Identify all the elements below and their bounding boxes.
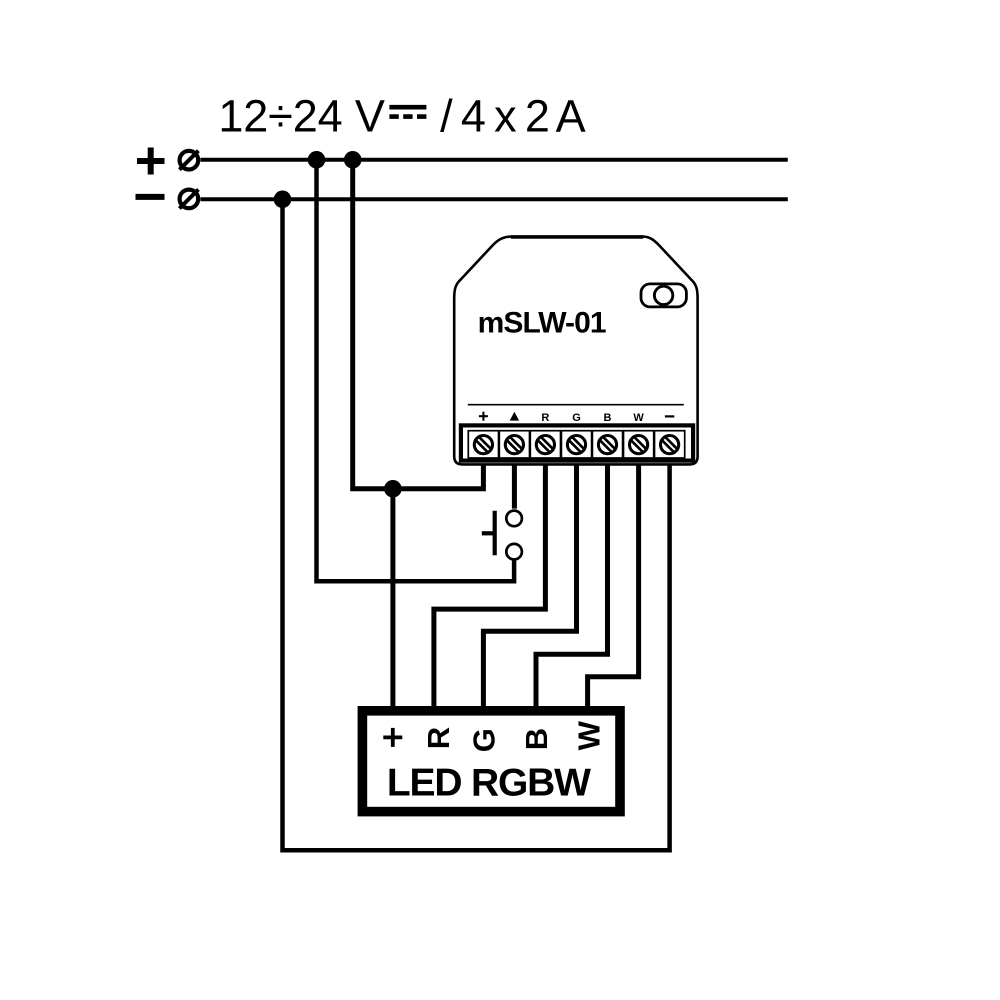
wire: + rail down to device + terminal <box>353 160 484 489</box>
supply screw terminal - <box>179 189 198 208</box>
terminal cell 1 (+) <box>468 431 498 458</box>
terminal cell 3 (R) <box>530 431 560 458</box>
svg-text:B: B <box>604 412 612 424</box>
terminal block strip <box>461 425 693 460</box>
LED strip pin label + <box>383 728 402 747</box>
wire: R terminal to LED strip R input <box>434 448 546 707</box>
svg-text:B: B <box>519 728 554 750</box>
terminal cell 6 (W) <box>624 431 654 458</box>
terminal screw 1 (+) <box>474 436 492 454</box>
terminal screw 4 (G) <box>567 436 585 454</box>
supply screw terminal + <box>179 151 198 170</box>
wire: B terminal to LED strip B input <box>536 448 608 707</box>
svg-text:12÷24 V: 12÷24 V <box>218 90 385 141</box>
wire: - terminal return loop back to - rail <box>283 199 670 850</box>
wire: + rail down to push button lower contact <box>317 160 515 581</box>
wire: branch from + node down to LED strip + input <box>390 489 395 707</box>
push button S1 (momentary, normally open) <box>482 511 522 560</box>
minus polarity symbol <box>136 194 165 200</box>
svg-text:/ 4 x 2 A: / 4 x 2 A <box>440 90 585 141</box>
junction dot at + distribution node <box>384 480 402 498</box>
svg-text:W: W <box>571 720 606 750</box>
device pin label - <box>665 415 674 417</box>
value label: supply rating 12÷24 V / 4 x 2 A <box>218 90 585 141</box>
wire: W terminal to LED strip W input <box>588 448 639 707</box>
terminal cell 4 (G) <box>561 431 591 458</box>
wire: + supply rail <box>201 158 788 162</box>
terminal screw 6 (W) <box>630 436 648 454</box>
terminal cell 7 (minus) <box>655 431 685 458</box>
svg-text:mSLW-01: mSLW-01 <box>478 306 607 339</box>
junction dot on - rail <box>274 191 292 209</box>
device U1 mSLW-01 body outline <box>454 237 697 465</box>
terminal screw 5 (B) <box>598 436 616 454</box>
service button B on device top <box>641 284 686 307</box>
wire: G terminal to LED strip G input <box>483 448 576 707</box>
terminal screw 2 (arrow) <box>505 436 523 454</box>
terminal screw 3 (R) <box>536 436 554 454</box>
device pin label arrow (switch input) <box>510 412 519 421</box>
device pin label + <box>479 412 488 421</box>
junction dot on + rail (right) <box>344 151 362 169</box>
device terminal separator line <box>468 404 684 406</box>
LED RGBW load box <box>362 711 620 812</box>
plus polarity symbol <box>137 148 165 175</box>
svg-text:LED RGBW: LED RGBW <box>387 762 591 805</box>
svg-text:G: G <box>572 412 581 424</box>
terminal cell 2 (arrow) <box>499 431 529 458</box>
junction dot on + rail (left) <box>308 151 326 169</box>
wire: - supply rail <box>201 197 788 201</box>
terminal screw 7 (minus) <box>661 436 679 454</box>
svg-text:G: G <box>467 728 502 752</box>
DC voltage symbol <box>389 107 426 116</box>
svg-text:R: R <box>541 412 549 424</box>
svg-text:R: R <box>421 727 456 749</box>
svg-text:W: W <box>633 412 644 424</box>
wire: device arrow terminal down to push button upper contact <box>512 448 517 509</box>
terminal cell 5 (B) <box>592 431 622 458</box>
